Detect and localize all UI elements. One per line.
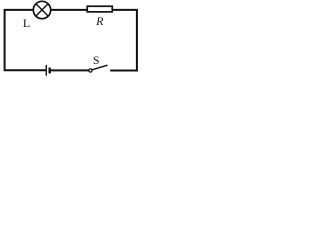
lamp L xyxy=(33,1,50,18)
wire top-left + left side + bottom-left xyxy=(5,10,46,70)
resistor R xyxy=(87,6,112,12)
svg-text:S: S xyxy=(93,53,100,67)
wire lamp to resistor xyxy=(51,9,87,11)
svg-text:R: R xyxy=(95,14,104,28)
wire resistor + right side + bottom-right xyxy=(110,10,137,71)
switch S xyxy=(89,65,108,72)
wire battery to switch xyxy=(51,69,89,71)
svg-text:L: L xyxy=(23,16,30,30)
battery cell xyxy=(46,65,49,76)
